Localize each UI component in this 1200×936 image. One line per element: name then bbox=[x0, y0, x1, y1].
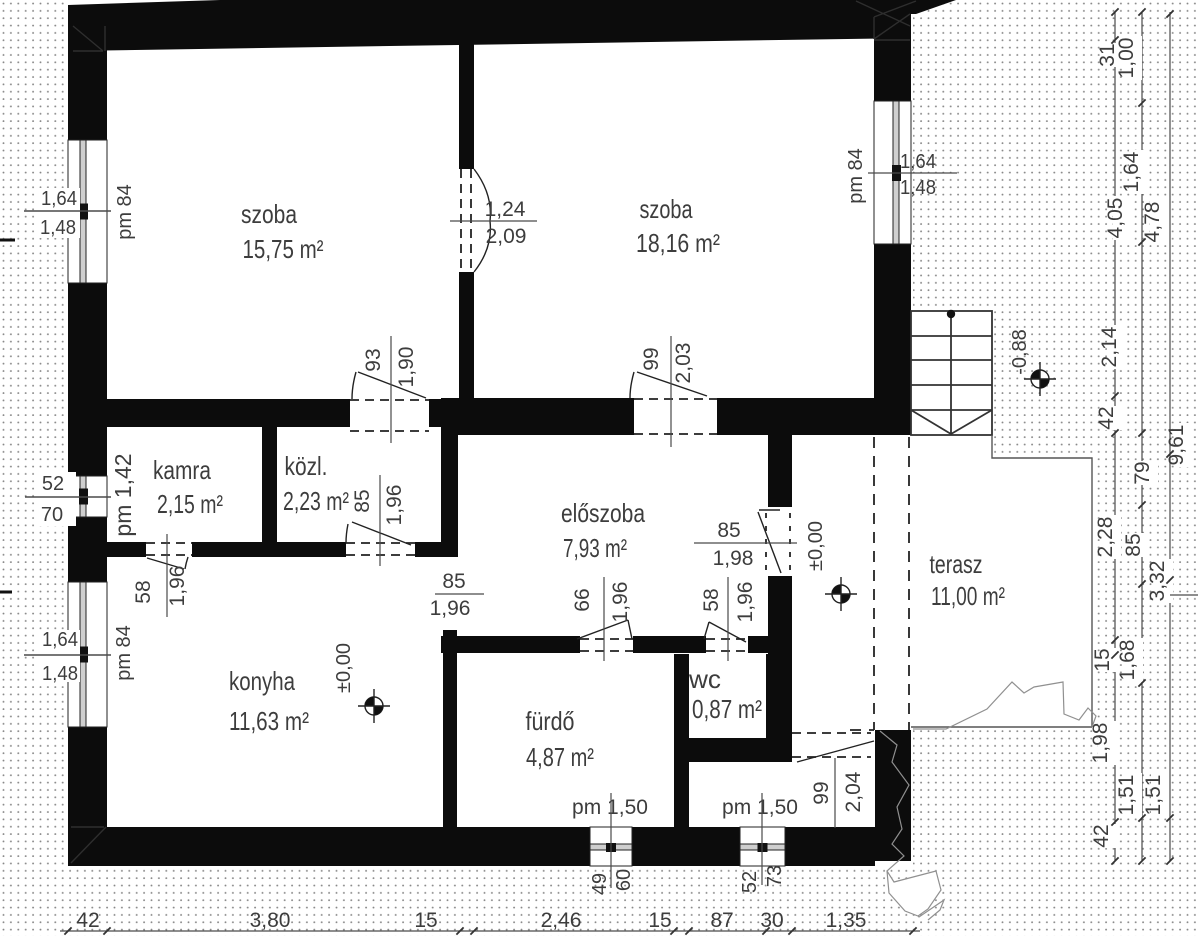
dotted ground right strip bbox=[1092, 458, 1200, 936]
dim door lobby 99/2,04 bbox=[834, 758, 836, 828]
dim window kamra 52/70 bbox=[36, 472, 76, 526]
svg-text:15: 15 bbox=[414, 909, 437, 932]
svg-text:1,64: 1,64 bbox=[1120, 151, 1143, 192]
svg-text:pm 1,50: pm 1,50 bbox=[722, 796, 798, 819]
svg-text:42: 42 bbox=[1095, 406, 1118, 429]
terasz slab bbox=[792, 435, 1092, 727]
svg-text:4,87 m²: 4,87 m² bbox=[526, 742, 594, 772]
svg-text:1,00: 1,00 bbox=[1115, 38, 1138, 79]
dim line C x=1170 bbox=[1169, 12, 1171, 861]
partition szoba1/szoba2 lower bbox=[459, 272, 474, 399]
corner break mark bottom-left bbox=[71, 827, 106, 863]
svg-text:konyha: konyha bbox=[229, 666, 295, 696]
svg-text:1,98: 1,98 bbox=[1089, 723, 1112, 764]
svg-text:2,03: 2,03 bbox=[672, 343, 695, 384]
svg-text:11,63 m²: 11,63 m² bbox=[229, 706, 309, 736]
left edge mark lower bbox=[0, 591, 12, 594]
dim door 93/1,90 bbox=[390, 336, 392, 443]
svg-text:0,87 m²: 0,87 m² bbox=[692, 694, 762, 724]
svg-text:15: 15 bbox=[1091, 648, 1114, 671]
svg-text:1,35: 1,35 bbox=[826, 909, 867, 932]
svg-text:15,75 m²: 15,75 m² bbox=[243, 234, 324, 264]
svg-text:1,51: 1,51 bbox=[1142, 775, 1165, 816]
wall wc east bbox=[766, 654, 792, 762]
svg-text:73: 73 bbox=[764, 865, 786, 887]
SE porch wall block bbox=[875, 730, 911, 861]
dim door közl 85/1,96 bbox=[379, 475, 381, 566]
svg-text:2,04: 2,04 bbox=[842, 771, 865, 812]
door fürdő (66/1,96) bbox=[577, 620, 633, 651]
svg-text:pm 84: pm 84 bbox=[113, 625, 135, 681]
svg-text:1,24: 1,24 bbox=[485, 198, 526, 221]
svg-text:1,96: 1,96 bbox=[609, 582, 632, 623]
door közl-konyha (85/1,96) bbox=[346, 522, 415, 555]
svg-text:52: 52 bbox=[739, 871, 761, 893]
door wc (58/1,96) bbox=[704, 622, 748, 651]
dim window szoba1 1,64/1,48 bbox=[38, 188, 80, 238]
window kamra (pm 1,42) bbox=[68, 476, 107, 517]
svg-text:2,09: 2,09 bbox=[486, 225, 527, 248]
svg-text:-0,88: -0,88 bbox=[1009, 329, 1031, 375]
svg-text:4,78: 4,78 bbox=[1141, 202, 1164, 243]
exterior top wall bbox=[68, 0, 911, 51]
svg-text:30: 30 bbox=[760, 909, 783, 932]
door szoba1-szoba2 (1,24/2,09) bbox=[461, 169, 490, 272]
svg-text:1,48: 1,48 bbox=[40, 217, 76, 239]
window wc (pm 1,50) bbox=[740, 827, 785, 866]
level marker konyha ±0,00 bbox=[358, 689, 390, 723]
svg-text:85: 85 bbox=[351, 489, 374, 512]
svg-text:1,98: 1,98 bbox=[713, 547, 754, 570]
svg-text:4,05: 4,05 bbox=[1104, 198, 1127, 239]
partition szoba1/szoba2 upper bbox=[459, 44, 474, 169]
door terasz-lobby (99/2,04) bbox=[792, 733, 874, 762]
svg-text:85: 85 bbox=[1122, 533, 1145, 556]
svg-text:1,90: 1,90 bbox=[395, 347, 418, 388]
top wall stub over stairs bbox=[911, 0, 956, 14]
dim door konyha 85/1,96 bbox=[435, 593, 484, 595]
stair well bbox=[911, 311, 993, 435]
svg-text:85: 85 bbox=[717, 519, 740, 542]
svg-text:1,51: 1,51 bbox=[1115, 775, 1138, 816]
terrain sketch line lower bbox=[880, 731, 941, 916]
building footprint bbox=[68, 0, 912, 866]
dotted ground below terasz bbox=[913, 727, 1092, 936]
dim window szoba2 1,64/1,48 bbox=[868, 172, 957, 174]
svg-text:1,48: 1,48 bbox=[900, 177, 936, 199]
dim door 1,24/2,09 bbox=[450, 220, 537, 222]
bottom dimension line bbox=[60, 930, 920, 932]
terrain white pocket bbox=[887, 871, 941, 916]
svg-text:1,64: 1,64 bbox=[900, 151, 936, 173]
svg-text:11,00 m²: 11,00 m² bbox=[931, 581, 1005, 611]
wall kamra/közl bbox=[262, 427, 277, 542]
wall közl east bbox=[441, 427, 458, 557]
svg-text:42: 42 bbox=[76, 909, 99, 932]
exterior left wall bbox=[68, 7, 107, 866]
wall wc south bbox=[674, 738, 792, 762]
door kamra (58/1,96) bbox=[146, 543, 192, 569]
exterior bottom wall bbox=[68, 827, 875, 866]
dim door terasz 85/1,98 bbox=[694, 542, 797, 544]
door szoba1-közl (93/1,90) bbox=[350, 372, 429, 431]
svg-text:3,32: 3,32 bbox=[1146, 561, 1169, 602]
door előszoba-terasz (85/1,98) bbox=[758, 510, 790, 575]
svg-text:99: 99 bbox=[810, 781, 833, 804]
wall szoba1 south (west part) bbox=[107, 399, 350, 427]
svg-text:2,15 m²: 2,15 m² bbox=[157, 489, 223, 519]
svg-text:fürdő: fürdő bbox=[526, 706, 575, 736]
svg-text:66: 66 bbox=[571, 588, 594, 611]
svg-text:52: 52 bbox=[42, 473, 64, 495]
window fürdő (pm 1,50) bbox=[590, 827, 632, 866]
dotted ground left strip bbox=[0, 0, 68, 936]
wall szoba2 south (east part) bbox=[717, 398, 911, 435]
dim door 99/2,03 bbox=[670, 336, 672, 447]
svg-text:szoba: szoba bbox=[241, 199, 297, 229]
svg-text:15: 15 bbox=[648, 909, 671, 932]
svg-text:1,96: 1,96 bbox=[166, 566, 189, 607]
window szoba2 (pm 84) bbox=[874, 101, 911, 244]
corner break mark top-left bbox=[73, 26, 105, 51]
window szoba1 (pm 84) bbox=[68, 140, 107, 283]
svg-text:kamra: kamra bbox=[153, 455, 211, 485]
terrain sketch line upper bbox=[913, 682, 1096, 729]
dim door wc 58/1,96 bbox=[727, 577, 729, 661]
dim line B x=1142 bbox=[1141, 12, 1143, 861]
dotted ground notch right of stairs bbox=[992, 435, 1200, 458]
svg-text:49: 49 bbox=[589, 873, 611, 895]
svg-text:85: 85 bbox=[442, 570, 465, 593]
dim door fürdő 66/1,96 bbox=[603, 577, 605, 661]
svg-text:pm 1,50: pm 1,50 bbox=[572, 796, 648, 819]
svg-text:2,23 m²: 2,23 m² bbox=[283, 486, 349, 516]
dim door kamra 58/1,96 bbox=[166, 534, 168, 617]
exterior right wall bbox=[874, 0, 911, 435]
wall előszoba south (mid) bbox=[633, 636, 706, 653]
dim window konyha 1,64/1,48 bbox=[38, 630, 80, 682]
dim line A x=1115 bbox=[1114, 12, 1116, 861]
svg-text:2,28: 2,28 bbox=[1094, 517, 1117, 558]
wall előszoba south (west) bbox=[441, 636, 580, 653]
svg-text:18,16 m²: 18,16 m² bbox=[636, 228, 720, 258]
left edge mark upper bbox=[0, 239, 15, 242]
stairs bbox=[911, 311, 992, 435]
svg-text:1,96: 1,96 bbox=[734, 582, 757, 623]
svg-text:7,93 m²: 7,93 m² bbox=[563, 533, 627, 563]
svg-text:2,46: 2,46 bbox=[541, 909, 582, 932]
corner break mark top-right bbox=[856, 1, 916, 40]
wall fürdő/wc bbox=[674, 654, 689, 827]
svg-text:szoba: szoba bbox=[640, 194, 693, 224]
dotted ground bottom strip bbox=[0, 866, 913, 936]
svg-text:1,68: 1,68 bbox=[1116, 640, 1139, 681]
wall kamra south (west) bbox=[107, 542, 146, 557]
svg-text:közl.: közl. bbox=[285, 451, 328, 481]
level marker előszoba ±0,00 bbox=[825, 577, 857, 611]
svg-text:70: 70 bbox=[41, 504, 63, 526]
svg-text:terasz: terasz bbox=[930, 549, 983, 579]
svg-text:pm 1,42: pm 1,42 bbox=[110, 453, 136, 536]
wall szoba1 south (east part) bbox=[429, 399, 474, 427]
svg-text:2,14: 2,14 bbox=[1098, 326, 1121, 367]
svg-text:9,61: 9,61 bbox=[1165, 425, 1188, 466]
svg-text:58: 58 bbox=[132, 580, 155, 603]
svg-text:79: 79 bbox=[1131, 461, 1154, 484]
svg-text:±0,00: ±0,00 bbox=[805, 521, 827, 571]
svg-text:előszoba: előszoba bbox=[561, 498, 645, 528]
wall szoba2 south (west part) bbox=[441, 398, 634, 435]
wall konyha/fürdő bbox=[443, 630, 457, 827]
dotted ground upper right bbox=[913, 0, 1200, 435]
svg-text:wc: wc bbox=[688, 664, 721, 694]
svg-text:1,96: 1,96 bbox=[430, 597, 471, 620]
svg-text:1,64: 1,64 bbox=[41, 188, 77, 210]
wall előszoba/terasz lower bbox=[768, 576, 792, 654]
svg-text:93: 93 bbox=[362, 348, 385, 371]
svg-text:60: 60 bbox=[613, 869, 635, 891]
level marker terrain -0,88 bbox=[1024, 362, 1056, 396]
wall kamra/közl south (mid) bbox=[192, 542, 346, 557]
svg-text:58: 58 bbox=[700, 588, 723, 611]
svg-text:3,80: 3,80 bbox=[250, 909, 291, 932]
wall előszoba/terasz upper bbox=[768, 435, 792, 507]
svg-text:1,64: 1,64 bbox=[42, 629, 78, 651]
dim stub right bbox=[1170, 594, 1198, 596]
door szoba2-előszoba (99/2,03) bbox=[630, 372, 717, 434]
terasz outline bbox=[911, 435, 1092, 727]
svg-text:1,96: 1,96 bbox=[383, 485, 406, 526]
svg-text:pm 84: pm 84 bbox=[845, 148, 867, 204]
svg-text:pm 84: pm 84 bbox=[114, 184, 136, 240]
svg-text:42: 42 bbox=[1090, 824, 1113, 847]
svg-text:1,48: 1,48 bbox=[42, 663, 78, 685]
roof overhang dashed lines bbox=[850, 437, 909, 730]
svg-text:87: 87 bbox=[710, 909, 733, 932]
wall közl south (east) bbox=[415, 542, 458, 557]
svg-text:99: 99 bbox=[640, 347, 663, 370]
wall előszoba south (east) bbox=[748, 636, 792, 653]
svg-text:±0,00: ±0,00 bbox=[333, 643, 355, 693]
window konyha (pm 84) bbox=[68, 582, 107, 727]
